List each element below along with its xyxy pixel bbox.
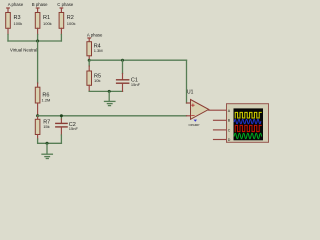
svg-text:1.3M: 1.3M [94, 48, 103, 53]
wire R7 bottom lead [37, 135, 39, 140]
pin - mark [192, 114, 195, 116]
wire R6 bottom lead [37, 103, 39, 116]
wire junction to opamp + (horizontal) [89, 59, 186, 61]
wire R7 to bottom rail [38, 139, 62, 143]
wire B phase to R1 [36, 8, 39, 13]
wire scope pin C stub [214, 129, 227, 131]
resistor R3 [6, 13, 11, 29]
svg-text:C phase: C phase [57, 2, 74, 7]
wire scope pin D stub [214, 139, 227, 141]
wire C2 bottom lead [60, 128, 62, 135]
svg-text:D: D [228, 138, 231, 142]
wire R2 to bus [60, 35, 62, 42]
svg-text:Virtual Neutral: Virtual Neutral [10, 47, 37, 52]
resistor R2 [59, 13, 64, 29]
svg-text:15nF: 15nF [131, 82, 141, 87]
wire R4 bottom lead [88, 56, 90, 60]
wire A phase to R4 [88, 38, 91, 42]
wire R6 top lead [37, 83, 39, 87]
wire R3 bottom lead [7, 28, 9, 34]
wire A phase to R3 [7, 8, 10, 13]
wire R1 bottom lead [37, 28, 39, 34]
wire neutral bus [8, 40, 61, 42]
wire R7 top lead [37, 116, 39, 120]
svg-text:U1: U1 [187, 90, 194, 96]
ground (below R5/C1) [105, 91, 115, 105]
svg-text:A phase: A phase [87, 33, 103, 38]
svg-text:OPAMP: OPAMP [189, 123, 200, 127]
resistor R7 [35, 119, 40, 134]
svg-text:B phase: B phase [32, 2, 48, 7]
svg-text:100k: 100k [67, 21, 76, 26]
wire opamp output to scope A [209, 109, 227, 111]
pin + mark [192, 104, 195, 107]
junction C2 tap [60, 114, 63, 117]
wire C1 top lead [122, 60, 124, 73]
capacitor C1 [117, 79, 129, 81]
wire opamp + input stub [187, 102, 191, 104]
svg-text:15k: 15k [43, 124, 49, 129]
wire down to opamp + (vertical) [186, 60, 188, 103]
junction R6/R7 [36, 114, 39, 117]
ground (below R7/C2) [42, 143, 52, 158]
wire R5 top lead [88, 60, 90, 66]
wire virtual neutral down to R6 [37, 41, 39, 83]
svg-text:10k: 10k [94, 78, 100, 83]
oscilloscope screen [234, 108, 264, 140]
resistor R5 [87, 71, 92, 85]
waveform channel A (yellow square) [235, 112, 261, 118]
svg-text:100k: 100k [14, 21, 23, 26]
waveform channel D (green sine) [234, 133, 261, 138]
capacitor C2 [56, 122, 67, 124]
oscilloscope body [227, 104, 269, 143]
svg-text:100k: 100k [43, 21, 52, 26]
svg-text:15nF: 15nF [69, 126, 79, 131]
op-amp U1 [191, 100, 209, 120]
wire C1 bottom lead [122, 84, 124, 92]
wire R6/R7 junction to opamp - (long horizontal) [38, 115, 187, 117]
power pin marker (blue) [194, 120, 197, 122]
wire bottom rail R5-C1 [89, 90, 122, 92]
waveform channel C (red square) [235, 125, 261, 131]
wire R3 to bus [7, 35, 9, 42]
svg-text:C: C [228, 128, 231, 132]
wire opamp - input stub [187, 115, 191, 117]
resistor R6 [35, 87, 40, 103]
wire scope pin B stub [214, 119, 227, 121]
wire R1 to bus [37, 35, 39, 42]
junction ground tap [46, 142, 49, 145]
svg-text:A phase: A phase [8, 2, 24, 7]
junction on bus [36, 40, 39, 43]
resistor R1 [35, 13, 40, 29]
junction C1 tap [121, 59, 124, 62]
wire C2 top lead [60, 116, 62, 119]
junction R4/R5 [88, 59, 91, 62]
svg-text:1.2M: 1.2M [42, 97, 51, 102]
wire R2 bottom lead [60, 28, 62, 34]
wire R5 bottom lead [88, 85, 90, 91]
wire C phase to R2 [60, 8, 63, 13]
waveform channel B (blue sine) [234, 119, 261, 123]
resistor R4 [87, 42, 92, 56]
junction ground tap [108, 90, 111, 93]
